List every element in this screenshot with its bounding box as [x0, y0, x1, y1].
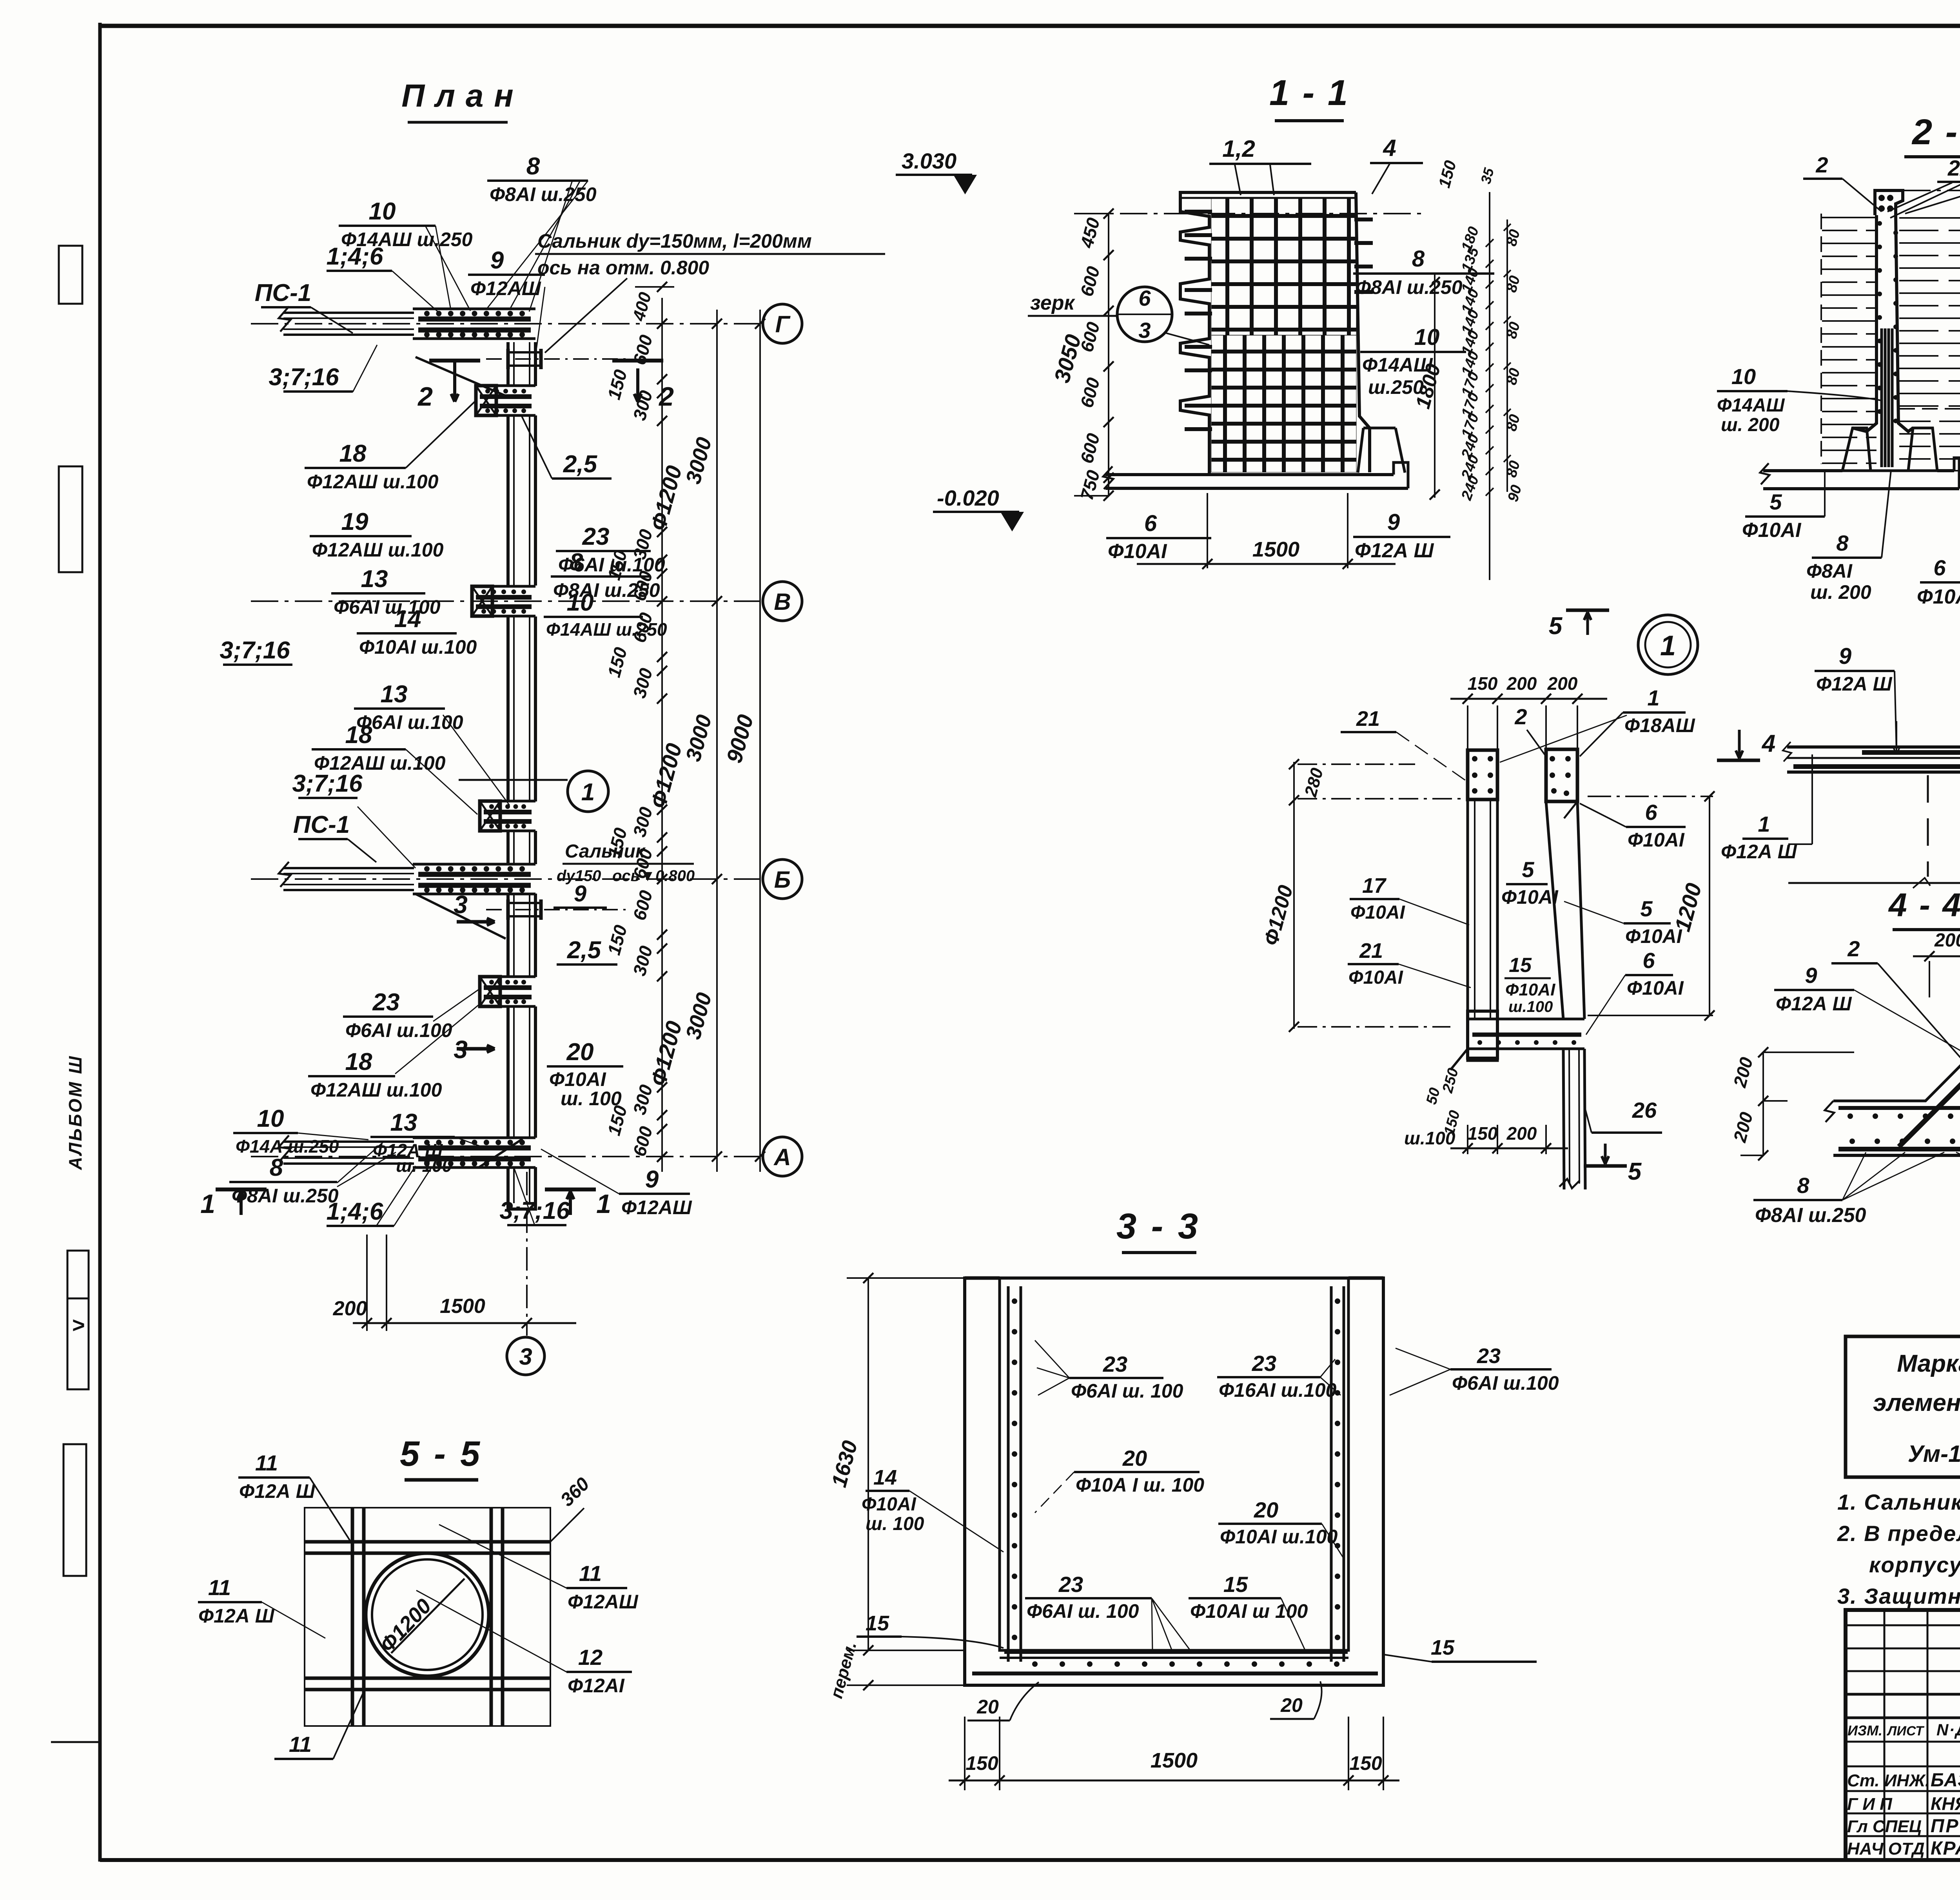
- svg-text:8: 8: [1412, 246, 1425, 272]
- svg-text:11: 11: [255, 1450, 278, 1475]
- svg-text:Ф6АI ш. 100: Ф6АI ш. 100: [1027, 1600, 1139, 1622]
- svg-text:Ф12А Ш: Ф12А Ш: [1355, 539, 1434, 562]
- svg-text:9: 9: [1387, 509, 1400, 535]
- svg-text:ш. 200: ш. 200: [1721, 415, 1780, 435]
- svg-text:3;7;16: 3;7;16: [499, 1197, 570, 1224]
- svg-text:Г: Г: [775, 311, 791, 337]
- svg-text:2 - 2: 2 - 2: [1911, 112, 1960, 152]
- svg-text:5: 5: [1549, 613, 1563, 640]
- svg-text:В: В: [774, 589, 791, 615]
- svg-text:2. В пределах отверстий арм: 2. В пределах отверстий арматуру вырезат…: [1837, 1521, 1960, 1546]
- svg-text:Ф8АI: Ф8АI: [1806, 560, 1853, 582]
- svg-text:22: 22: [1947, 156, 1960, 180]
- svg-text:Ф10АI ш.100: Ф10АI ш.100: [359, 636, 477, 658]
- svg-text:ш. 200: ш. 200: [1810, 581, 1871, 603]
- svg-text:200: 200: [1506, 673, 1537, 694]
- svg-text:Ф12А Ш: Ф12А Ш: [1721, 841, 1797, 863]
- svg-text:4: 4: [1761, 730, 1775, 757]
- svg-text:Ф10АI: Ф10АI: [1505, 980, 1555, 999]
- svg-text:КНЯГИНИЧЕВ: КНЯГИНИЧЕВ: [1931, 1793, 1960, 1814]
- svg-text:N·ДОКУМ: N·ДОКУМ: [1936, 1721, 1960, 1739]
- svg-text:17: 17: [1362, 874, 1387, 897]
- svg-text:ш.100: ш.100: [1404, 1128, 1455, 1148]
- svg-text:1 - 1: 1 - 1: [1269, 73, 1349, 113]
- svg-text:1500: 1500: [440, 1295, 485, 1318]
- svg-text:Ф8АI ш.250: Ф8АI ш.250: [1356, 276, 1463, 298]
- svg-text:П л а н: П л а н: [401, 78, 514, 114]
- svg-text:18: 18: [345, 1048, 372, 1075]
- svg-text:Ф12АШ ш.100: Ф12АШ ш.100: [310, 1079, 442, 1101]
- svg-text:Ф10АI: Ф10АI: [1917, 586, 1960, 608]
- svg-text:1: 1: [1660, 630, 1676, 662]
- svg-text:2: 2: [1815, 152, 1828, 177]
- svg-text:9: 9: [490, 247, 504, 274]
- svg-text:Ф10АI: Ф10АI: [1108, 540, 1167, 563]
- svg-text:23: 23: [1252, 1351, 1276, 1376]
- svg-text:ш. 100: ш. 100: [396, 1155, 452, 1176]
- svg-text:13: 13: [381, 681, 408, 708]
- svg-text:1: 1: [1758, 812, 1770, 836]
- svg-text:>: >: [72, 1313, 85, 1337]
- svg-text:Ф10АI: Ф10АI: [1350, 902, 1406, 923]
- svg-text:19: 19: [341, 508, 368, 535]
- svg-text:ПС-1: ПС-1: [293, 811, 350, 838]
- svg-text:10: 10: [567, 589, 594, 616]
- svg-text:Ф14А ш.250: Ф14А ш.250: [236, 1136, 339, 1157]
- svg-text:2: 2: [1514, 704, 1527, 729]
- svg-text:15: 15: [866, 1612, 889, 1635]
- svg-text:БАЗАНОВ: БАЗАНОВ: [1931, 1770, 1960, 1791]
- svg-text:23: 23: [1058, 1572, 1083, 1597]
- svg-text:Ф8АI ш.250: Ф8АI ш.250: [1755, 1204, 1866, 1227]
- svg-text:150: 150: [1468, 673, 1498, 694]
- svg-text:-0.020: -0.020: [937, 486, 999, 510]
- svg-text:Ф10АI: Ф10АI: [1625, 925, 1682, 947]
- svg-text:3;7;16: 3;7;16: [269, 364, 339, 391]
- svg-text:20: 20: [566, 1039, 594, 1066]
- svg-text:15: 15: [1223, 1572, 1248, 1597]
- svg-text:Ф10АI: Ф10АI: [1742, 519, 1802, 542]
- svg-text:Ф12АШ: Ф12АШ: [470, 277, 541, 299]
- svg-text:ш. 100: ш. 100: [866, 1514, 924, 1534]
- svg-text:Сальник dy=150мм, l=200мм: Сальник dy=150мм, l=200мм: [537, 230, 812, 252]
- svg-text:ш.250: ш.250: [1368, 376, 1424, 398]
- svg-text:200: 200: [1547, 673, 1578, 694]
- svg-text:1: 1: [581, 779, 595, 806]
- svg-text:1: 1: [200, 1189, 215, 1219]
- svg-text:13: 13: [361, 566, 388, 593]
- svg-text:200: 200: [1934, 930, 1960, 951]
- svg-text:Ф10АI: Ф10АI: [862, 1494, 917, 1515]
- svg-text:1,2: 1,2: [1222, 136, 1255, 162]
- svg-text:10: 10: [257, 1105, 284, 1132]
- svg-text:200: 200: [333, 1297, 367, 1320]
- svg-text:Ум-1: Ум-1: [1908, 1441, 1960, 1467]
- svg-text:Ф14АШ: Ф14АШ: [1362, 354, 1433, 376]
- svg-text:Ф12А Ш: Ф12А Ш: [198, 1605, 275, 1627]
- svg-text:21: 21: [1356, 707, 1380, 731]
- svg-text:Ф18АШ: Ф18АШ: [1624, 714, 1695, 736]
- svg-text:6: 6: [1933, 555, 1946, 580]
- svg-text:Ф6АI ш. 100: Ф6АI ш. 100: [1071, 1380, 1183, 1402]
- svg-text:Ф16АI ш.100: Ф16АI ш.100: [1219, 1379, 1337, 1401]
- svg-text:23: 23: [1103, 1352, 1127, 1376]
- svg-text:Ф10АI: Ф10АI: [1628, 829, 1685, 851]
- svg-text:Ф6АI ш.100: Ф6АI ш.100: [334, 596, 441, 618]
- svg-text:3: 3: [1138, 318, 1151, 343]
- svg-text:2: 2: [1847, 936, 1860, 961]
- svg-text:3;7;16: 3;7;16: [220, 637, 290, 664]
- svg-text:3. Защитный слой бетона: 3. Защитный слой бетона принять равным -…: [1837, 1584, 1960, 1608]
- svg-text:10: 10: [369, 198, 396, 225]
- svg-text:1;4;6: 1;4;6: [327, 1198, 383, 1225]
- svg-text:21: 21: [1359, 939, 1383, 963]
- svg-text:6: 6: [1138, 286, 1151, 310]
- svg-text:11: 11: [579, 1561, 602, 1586]
- svg-text:1500: 1500: [1252, 538, 1299, 561]
- svg-text:14: 14: [394, 606, 421, 633]
- svg-text:КРАСАВИН: КРАСАВИН: [1931, 1838, 1960, 1859]
- svg-text:ЛИСТ: ЛИСТ: [1886, 1724, 1925, 1739]
- svg-text:3 - 3: 3 - 3: [1116, 1206, 1200, 1246]
- svg-text:11: 11: [208, 1575, 231, 1600]
- svg-text:зерк: зерк: [1030, 292, 1076, 314]
- svg-text:Ф10АI: Ф10АI: [1501, 886, 1559, 908]
- svg-text:АЛЬБОМ Ш: АЛЬБОМ Ш: [65, 1055, 85, 1170]
- svg-text:ПС-1: ПС-1: [255, 279, 312, 306]
- svg-text:150: 150: [1349, 1752, 1382, 1774]
- svg-text:15: 15: [1431, 1636, 1455, 1659]
- svg-text:2: 2: [658, 382, 674, 412]
- svg-text:3.030: 3.030: [902, 149, 956, 173]
- svg-text:9: 9: [574, 881, 586, 906]
- svg-text:НАЧ ОТД: НАЧ ОТД: [1847, 1839, 1925, 1858]
- svg-text:2: 2: [417, 382, 433, 412]
- svg-text:Ф10АI: Ф10АI: [1627, 977, 1684, 999]
- svg-text:1. Сальники заложить по се: 1. Сальники заложить по серии 3.901-5 в …: [1837, 1490, 1960, 1514]
- svg-text:23: 23: [372, 989, 400, 1016]
- svg-text:5: 5: [1640, 896, 1653, 921]
- svg-text:14: 14: [873, 1466, 897, 1489]
- svg-text:18: 18: [345, 722, 372, 749]
- svg-text:Ф12АШ: Ф12АШ: [568, 1591, 639, 1613]
- svg-text:Ф10АI: Ф10АI: [549, 1068, 606, 1090]
- svg-text:9: 9: [1839, 644, 1851, 669]
- svg-text:ш. 100: ш. 100: [561, 1088, 622, 1110]
- svg-text:Гл СПЕЦ: Гл СПЕЦ: [1847, 1817, 1922, 1836]
- svg-text:20: 20: [1254, 1498, 1278, 1522]
- svg-text:Ф12АШ ш.100: Ф12АШ ш.100: [307, 471, 439, 493]
- svg-text:ось▼0.800: ось▼0.800: [612, 867, 695, 885]
- svg-text:Ф12А Ш: Ф12А Ш: [1816, 673, 1893, 695]
- svg-text:корпусу са льника.: корпусу са льника.: [1869, 1552, 1960, 1577]
- svg-text:200: 200: [1506, 1123, 1537, 1144]
- svg-text:2,5: 2,5: [567, 937, 602, 964]
- svg-text:26: 26: [1632, 1098, 1657, 1122]
- svg-text:13: 13: [390, 1109, 417, 1136]
- svg-text:2,5: 2,5: [563, 451, 598, 478]
- svg-text:Ф6АI ш.100: Ф6АI ш.100: [1452, 1372, 1559, 1394]
- svg-text:8: 8: [1836, 531, 1849, 555]
- svg-text:3: 3: [519, 1343, 532, 1370]
- svg-text:150: 150: [1468, 1123, 1498, 1144]
- svg-text:Ф12АI: Ф12АI: [568, 1675, 625, 1697]
- svg-text:15: 15: [1509, 954, 1532, 977]
- svg-text:9: 9: [645, 1166, 659, 1193]
- svg-text:5 - 5: 5 - 5: [400, 1434, 482, 1474]
- svg-text:элемента: элемента: [1873, 1389, 1960, 1416]
- svg-text:6: 6: [1144, 511, 1157, 536]
- svg-text:1;4;6: 1;4;6: [327, 243, 383, 270]
- svg-text:Ст. ИНЖ.: Ст. ИНЖ.: [1847, 1771, 1930, 1790]
- svg-text:9: 9: [1805, 963, 1817, 988]
- svg-text:Сальник: Сальник: [565, 841, 646, 862]
- svg-text:ПРОНИН: ПРОНИН: [1931, 1816, 1960, 1837]
- svg-text:8: 8: [570, 549, 583, 576]
- svg-text:Ф8АI ш.250: Ф8АI ш.250: [490, 183, 597, 205]
- svg-text:20: 20: [1122, 1446, 1147, 1470]
- svg-text:1: 1: [1647, 685, 1659, 710]
- svg-text:23: 23: [582, 523, 610, 550]
- svg-text:Г И П: Г И П: [1847, 1795, 1893, 1814]
- svg-text:4: 4: [1383, 135, 1396, 161]
- svg-text:1: 1: [596, 1189, 611, 1219]
- svg-text:Ф6АI ш.100: Ф6АI ш.100: [356, 711, 463, 733]
- svg-text:Ф12А Ш: Ф12А Ш: [1776, 993, 1852, 1015]
- svg-text:8: 8: [1797, 1173, 1809, 1198]
- svg-text:5: 5: [1628, 1158, 1642, 1185]
- svg-text:Ф6АI ш.100: Ф6АI ш.100: [345, 1019, 452, 1041]
- svg-text:Марка: Марка: [1897, 1350, 1960, 1377]
- svg-text:18: 18: [339, 440, 367, 467]
- svg-text:11: 11: [289, 1732, 312, 1757]
- svg-text:Ф10АI ш.100: Ф10АI ш.100: [1220, 1526, 1338, 1548]
- svg-text:ш.100: ш.100: [1508, 998, 1553, 1015]
- svg-text:Б: Б: [774, 867, 791, 893]
- svg-text:10: 10: [1731, 364, 1756, 389]
- svg-text:20: 20: [1280, 1694, 1303, 1716]
- svg-text:3: 3: [454, 890, 468, 919]
- svg-text:Ф12А Ш: Ф12А Ш: [239, 1480, 316, 1502]
- svg-text:20: 20: [976, 1696, 999, 1718]
- svg-text:4 - 4: 4 - 4: [1888, 887, 1960, 923]
- svg-text:Ф10А I ш. 100: Ф10А I ш. 100: [1076, 1474, 1204, 1496]
- svg-text:5: 5: [1522, 857, 1534, 882]
- svg-text:6: 6: [1642, 948, 1655, 973]
- svg-text:5: 5: [1769, 490, 1782, 514]
- svg-text:12: 12: [578, 1645, 603, 1670]
- svg-text:Ф14АШ ш.250: Ф14АШ ш.250: [546, 619, 667, 640]
- svg-text:А: А: [773, 1144, 791, 1170]
- svg-text:Ф12АШ ш.100: Ф12АШ ш.100: [312, 539, 444, 561]
- svg-text:150: 150: [965, 1752, 998, 1774]
- svg-text:8: 8: [526, 153, 540, 180]
- svg-text:8: 8: [270, 1154, 283, 1181]
- svg-text:10: 10: [1414, 325, 1440, 350]
- svg-text:23: 23: [1477, 1344, 1501, 1368]
- svg-text:ИЗМ.: ИЗМ.: [1847, 1722, 1882, 1739]
- svg-text:Ф14АШ: Ф14АШ: [1717, 395, 1785, 416]
- svg-text:3;7;16: 3;7;16: [292, 770, 363, 797]
- svg-text:Ф12АШ: Ф12АШ: [621, 1197, 692, 1218]
- svg-text:ось на отм. 0.800: ось на отм. 0.800: [537, 257, 709, 279]
- svg-text:1500: 1500: [1151, 1749, 1198, 1772]
- svg-text:6: 6: [1645, 800, 1657, 825]
- svg-text:Ф10АI: Ф10АI: [1348, 967, 1404, 988]
